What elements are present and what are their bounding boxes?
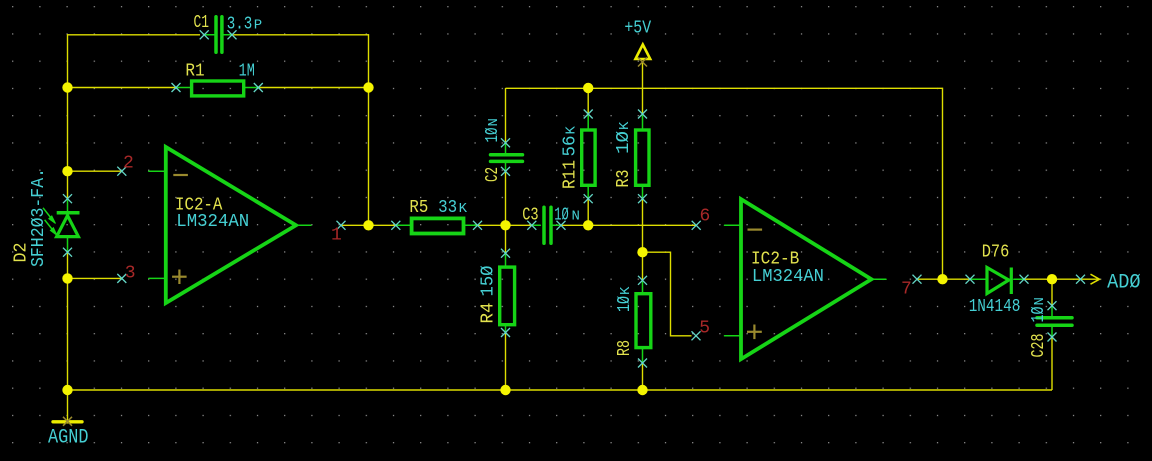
svg-text:R11: R11 — [561, 160, 581, 189]
capacitor C3 — [544, 207, 551, 243]
svg-text:3: 3 — [125, 264, 136, 284]
wire stub R4 bottom — [505, 326, 507, 332]
pin mark D2 top — [63, 194, 72, 203]
wire opamp A output row — [341, 224, 396, 226]
svg-text:N: N — [486, 118, 502, 126]
svg-text:15Ø: 15Ø — [479, 265, 499, 296]
wire bottom ground rail — [68, 389, 1053, 391]
wire D76 to AD0 node — [1024, 278, 1081, 280]
wire stub C3 right — [553, 224, 561, 226]
svg-text:C28: C28 — [1029, 334, 1049, 358]
node junction opamp B out — [937, 274, 947, 284]
IC2-B minus input — [748, 229, 763, 231]
node junction pin3 — [62, 273, 72, 283]
pin mark C2 bottom — [501, 167, 510, 176]
pin mark C28 top — [1048, 301, 1057, 310]
svg-text:1Ø: 1Ø — [1029, 306, 1049, 322]
pin mark pin5 — [692, 331, 701, 340]
svg-text:R5: R5 — [409, 198, 428, 218]
pin mark C2 top — [501, 138, 510, 147]
pin mark C1 right — [228, 30, 237, 39]
svg-text:1N4148: 1N4148 — [969, 297, 1021, 317]
wire pin2 — [68, 170, 122, 172]
node junction opamp A out — [363, 220, 373, 230]
wire C2 top — [505, 88, 507, 143]
pin mark R4 top — [501, 249, 510, 258]
resistor R4 — [500, 267, 515, 325]
wire stub R1 right — [245, 87, 258, 89]
wire stub C2 bottom — [505, 163, 507, 171]
D2 light arrows — [43, 208, 57, 236]
pin mark C3 right — [557, 221, 566, 230]
wire R5 right to C3 left — [478, 224, 532, 226]
wire stub pin3 — [149, 277, 166, 279]
wire +5V stem — [642, 62, 644, 114]
pin mark D76 left — [966, 275, 975, 284]
pin mark +5V — [638, 58, 647, 67]
wire R4 bottom — [505, 333, 507, 391]
svg-text:2: 2 — [123, 154, 134, 174]
node junction left top — [62, 82, 72, 92]
wire left rail upper — [67, 34, 69, 199]
wire left rail lower — [67, 252, 69, 420]
node junction R5/C2/R4 — [500, 220, 510, 230]
wire stub opamp B out — [871, 278, 886, 280]
wire stub D76 right — [1014, 278, 1024, 280]
green pin stubs — [68, 35, 1053, 363]
pin mark pin2 — [117, 167, 126, 176]
capacitor C1 — [216, 17, 222, 53]
wire R11 bottom — [587, 199, 589, 226]
wire stub D76 left — [970, 278, 986, 280]
wire R3 junction to R8 — [642, 252, 644, 280]
wire stub R5 left — [396, 224, 410, 226]
node junction C28 — [1047, 274, 1057, 284]
wire stub C2 top — [505, 143, 507, 153]
pin mark C3 left — [527, 221, 536, 230]
svg-text:AGND: AGND — [48, 427, 89, 450]
node junction +5V rail R11 — [583, 83, 593, 93]
pin mark R11 top — [584, 110, 593, 119]
svg-text:6: 6 — [700, 207, 711, 227]
wire top C1 row right — [233, 34, 368, 36]
svg-text:1Ø: 1Ø — [483, 127, 503, 142]
resistor R1 — [192, 81, 244, 96]
wire stub pin5 — [725, 335, 742, 337]
wire stub C3 left — [532, 224, 541, 226]
svg-text:56: 56 — [561, 136, 581, 157]
pin mark R5 left — [391, 221, 400, 230]
node junction rail R4 — [500, 385, 510, 395]
svg-text:C2: C2 — [483, 167, 503, 182]
pin mark R1 left — [172, 83, 181, 92]
wire R11 top — [587, 88, 589, 114]
svg-text:K: K — [459, 201, 468, 217]
node junction R3/R8 — [637, 247, 647, 257]
wire stub R5 right — [465, 224, 477, 226]
wire stub D2 top — [67, 199, 69, 211]
wire stub R11 top — [587, 114, 589, 128]
wire top C1 row left — [68, 34, 201, 36]
node junction pin2 — [62, 166, 72, 176]
wire stub R8 bottom — [642, 349, 644, 363]
wire opamp B output row — [917, 278, 970, 280]
wire C2 bottom — [505, 171, 507, 225]
svg-text:33: 33 — [438, 198, 457, 218]
wire +5V rail — [506, 88, 943, 279]
svg-text:1Ø: 1Ø — [615, 296, 635, 312]
pin mark opamp B out — [913, 275, 922, 284]
svg-text:N: N — [1032, 297, 1048, 305]
pin mark R8 top — [638, 276, 647, 285]
pin mark AGND — [63, 417, 72, 426]
svg-text:1Ø: 1Ø — [554, 206, 569, 226]
resistor R8 — [636, 294, 651, 348]
wire stub R1 left — [176, 87, 190, 89]
pin mark C28 bottom — [1048, 333, 1057, 342]
wire stub D2 bottom — [67, 238, 69, 253]
node junction C3/R11 — [583, 220, 593, 230]
wire C28 top — [1051, 279, 1053, 306]
svg-text:C1: C1 — [194, 13, 210, 33]
svg-text:K: K — [618, 286, 634, 295]
pin mark R3 bottom — [638, 194, 647, 203]
svg-text:+5V: +5V — [624, 19, 651, 39]
wire R8 bottom — [642, 363, 644, 390]
pin mark R3 top — [638, 110, 647, 119]
wire pin3 — [68, 277, 122, 279]
resistor R5 — [412, 218, 464, 233]
op-amp IC2-B — [741, 199, 871, 359]
wire pin5 L path — [643, 252, 692, 336]
svg-text:R8: R8 — [615, 340, 635, 356]
svg-text:5: 5 — [699, 319, 710, 339]
wire AD0 stub — [1081, 278, 1099, 280]
pin mark pin6 — [692, 221, 701, 230]
wire net N$1 top feedback row — [68, 34, 1099, 420]
pin numbers red — [123, 154, 912, 339]
svg-text:ADØ: ADØ — [1107, 272, 1141, 295]
wire C3 right to pin6 — [560, 224, 697, 226]
capacitor C2 — [491, 155, 523, 162]
svg-text:K: K — [564, 126, 580, 135]
ground AGND symbol — [53, 420, 82, 423]
wire stub R3 bottom — [642, 187, 644, 199]
svg-text:R4: R4 — [479, 303, 499, 324]
pin mark pin3 — [117, 274, 126, 283]
pin mark R8 bottom — [638, 359, 647, 368]
wire stub C1 left — [205, 34, 215, 36]
wire stub C28 bottom — [1051, 327, 1053, 337]
wire right feedback rail — [368, 34, 370, 225]
svg-text:N: N — [572, 209, 580, 225]
pin mark R1 right — [254, 83, 263, 92]
pin mark opamp A out — [337, 221, 346, 230]
wire stub R3 top — [642, 114, 644, 128]
svg-text:D76: D76 — [982, 243, 1010, 263]
svg-text:R3: R3 — [614, 170, 634, 188]
IC2-B plus input — [747, 325, 762, 340]
svg-text:1Ø: 1Ø — [614, 131, 634, 154]
svg-text:C3: C3 — [522, 206, 538, 226]
supply +5V symbol — [635, 45, 650, 60]
wire stub C28 top — [1051, 306, 1053, 316]
svg-text:R1: R1 — [185, 62, 204, 82]
svg-text:P: P — [254, 17, 262, 33]
wire R4 top — [505, 225, 507, 253]
wire stub R4 top — [505, 253, 507, 265]
wire R3 bottom — [642, 199, 644, 253]
pin mark C1 left — [200, 30, 209, 39]
pin mark R4 bottom — [501, 328, 510, 337]
svg-text:3.3: 3.3 — [227, 14, 253, 34]
node junction rail R8 — [637, 385, 647, 395]
wire C28 bottom — [1051, 337, 1053, 390]
wire stub opamp A out — [296, 224, 311, 226]
node junction right top — [363, 82, 373, 92]
diode D76 — [987, 268, 1009, 294]
IC2-A minus input — [173, 174, 188, 176]
pin mark R11 bottom — [584, 194, 593, 203]
svg-text:K: K — [617, 121, 633, 130]
pin mark D2 bottom — [63, 248, 72, 257]
svg-text:SFH2Ø3-FA.: SFH2Ø3-FA. — [29, 168, 49, 267]
svg-text:LM324AN: LM324AN — [752, 267, 824, 287]
wire stub R11 bottom — [587, 187, 589, 199]
svg-text:1: 1 — [331, 226, 342, 246]
wire stub C1 right — [224, 34, 233, 36]
wire stub R8 top — [642, 280, 644, 292]
X marks olive power symbols — [63, 58, 647, 426]
svg-text:7: 7 — [901, 280, 912, 300]
op-amp IC2-A — [166, 147, 296, 303]
X pin marks cyan — [63, 30, 1085, 367]
resistor R3 — [636, 130, 649, 185]
pin mark D76 right — [1020, 275, 1029, 284]
wire stub pin2 — [149, 170, 166, 172]
resistor R11 — [582, 130, 595, 185]
wire stub pin6 — [725, 224, 742, 226]
node junction rail AGND — [62, 385, 72, 395]
svg-text:1M: 1M — [239, 62, 255, 82]
capacitor C28 — [1037, 318, 1072, 325]
arrow AD0 — [1091, 274, 1100, 284]
svg-text:LM324AN: LM324AN — [176, 212, 249, 232]
vertical labels — [12, 118, 1050, 357]
photodiode D2 — [57, 213, 80, 237]
pin mark R5 right — [473, 221, 482, 230]
pin mark AD0 — [1076, 275, 1085, 284]
IC2-A plus input — [172, 270, 187, 285]
wire R1 right — [258, 87, 368, 89]
wire R1 left — [68, 87, 177, 89]
